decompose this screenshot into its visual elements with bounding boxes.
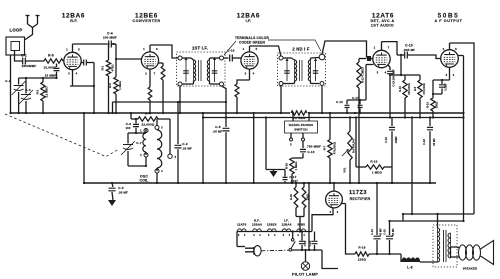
svg-text:3: 3 — [68, 72, 70, 76]
resistor R-12 4.7 MEG — [357, 59, 367, 185]
svg-text:C-13: C-13 — [307, 150, 314, 154]
svg-text:1 MEG: 1 MEG — [118, 81, 122, 90]
svg-text:C-10: C-10 — [405, 44, 413, 48]
wire screen drop x116 — [116, 44, 141, 59]
svg-text:R-13: R-13 — [426, 102, 430, 108]
capacitor C-14 100MMF — [387, 65, 396, 119]
svg-text:SWITCH: SWITCH — [294, 128, 308, 132]
svg-text:750 MMF: 750 MMF — [307, 145, 321, 149]
IF2 internal wires — [283, 58, 319, 84]
svg-text:R-1: R-1 — [101, 65, 105, 70]
AC cord dash-dot — [261, 249, 289, 252]
svg-text:150Ω: 150Ω — [306, 194, 310, 200]
capacitor C-16 — [336, 100, 349, 114]
wire V3 plate to IF2 — [250, 46, 281, 56]
svg-text:1: 1 — [66, 48, 68, 52]
wire plate run y44 — [73, 43, 108, 45]
svg-text:C-16: C-16 — [336, 100, 343, 104]
svg-text:6: 6 — [455, 47, 457, 51]
capacitor C-18 0.2MF — [432, 80, 448, 95]
svg-text:50 MF: 50 MF — [391, 228, 395, 236]
IF2 terminal bottom-right — [320, 82, 324, 86]
svg-text:470Ω: 470Ω — [111, 64, 115, 72]
on-off switch — [289, 230, 295, 251]
svg-text:100: 100 — [125, 126, 130, 130]
svg-text:2 ND I F: 2 ND I F — [292, 47, 309, 52]
svg-text:C-8: C-8 — [215, 125, 221, 129]
svg-text:0.2MF: 0.2MF — [444, 83, 448, 91]
wire V6 plate up — [333, 182, 335, 191]
IF1 internal wires — [182, 58, 220, 84]
wire V4 plate — [382, 42, 398, 55]
svg-text:C-16: C-16 — [227, 49, 234, 53]
IF2 shield box — [278, 53, 326, 86]
svg-text:12BA6: 12BA6 — [282, 223, 292, 227]
svg-text:12BE6: 12BE6 — [267, 223, 277, 227]
resistor R-2 2.2 MEG — [36, 78, 49, 114]
svg-text:15 MMF.: 15 MMF. — [45, 74, 57, 78]
wire R-4 to coil — [158, 118, 170, 120]
svg-text:R-18: R-18 — [289, 194, 293, 200]
svg-text:22,000Ω: 22,000Ω — [142, 123, 155, 127]
choke L-8 — [402, 258, 420, 270]
output transformer core — [444, 230, 447, 262]
svg-text:.05 MF: .05 MF — [182, 147, 192, 151]
pin numbers V4 — [374, 46, 390, 75]
heater V2f — [267, 223, 277, 237]
svg-text:RECTIFIER: RECTIFIER — [350, 197, 371, 201]
AVC bus y113 — [11, 112, 465, 114]
svg-text:470,000Ω: 470,000Ω — [422, 83, 426, 94]
svg-text:3: 3 — [377, 71, 379, 75]
osc coil terminal numbers — [140, 126, 163, 174]
svg-text:R-10: R-10 — [370, 160, 377, 164]
wire shunt join — [296, 217, 304, 233]
radio-phono switch box — [285, 121, 318, 133]
svg-text:C-7: C-7 — [136, 141, 142, 145]
svg-text:40 MF: 40 MF — [379, 228, 383, 236]
wire R-16 to filter — [369, 253, 401, 255]
svg-text:C-2: C-2 — [5, 79, 11, 83]
svg-text:1: 1 — [243, 47, 245, 51]
IF1 terminal top-right — [220, 56, 224, 60]
tube label 50B5 A.F. OUTPUT — [435, 13, 463, 24]
AC plug — [245, 246, 261, 256]
svg-text:CODED GREEN: CODED GREEN — [239, 41, 265, 45]
svg-text:C-19: C-19 — [370, 229, 374, 235]
wire B+ second run — [390, 213, 464, 221]
svg-text:2.2 MEG: 2.2 MEG — [45, 86, 49, 97]
pilot lamp — [301, 250, 309, 270]
wire V6 cathode to R-16 — [341, 204, 356, 255]
wire filament left end — [237, 232, 245, 247]
wire bus1-bus2 link x203 — [202, 112, 204, 184]
svg-text:2: 2 — [443, 47, 445, 51]
svg-text:R-8: R-8 — [413, 86, 417, 91]
capacitor C-15 grid — [227, 49, 234, 62]
capacitor C-19 40MF — [370, 182, 383, 254]
IF2 terminal top-left — [279, 56, 283, 60]
wire loop legs — [15, 51, 23, 62]
svg-text:4: 4 — [385, 71, 387, 75]
wire V1 side pin down — [93, 63, 95, 115]
wire C-4 right — [111, 43, 116, 45]
svg-text:330,000Ω: 330,000Ω — [407, 83, 411, 94]
svg-text:117Z3: 117Z3 — [349, 190, 367, 196]
heater V5f — [297, 223, 306, 237]
svg-text:.0047: .0047 — [290, 179, 298, 183]
svg-text:VOL: VOL — [344, 167, 347, 173]
oscillator coil primary — [143, 129, 148, 158]
output transformer secondary — [448, 233, 451, 258]
svg-text:1 MEG: 1 MEG — [294, 162, 298, 171]
resistor R-10 1 MEG — [355, 116, 393, 184]
IF1 primary trimmer — [183, 57, 189, 82]
resistor R-6 10,000 ohm — [44, 54, 63, 70]
svg-text:5: 5 — [78, 48, 80, 52]
IF1 terminal bottom-left — [178, 82, 182, 86]
heater V4f — [237, 223, 247, 237]
svg-text:R-6: R-6 — [48, 54, 54, 58]
capacitor C-17b — [352, 96, 362, 114]
resistor R-20 1 MEG — [285, 158, 304, 184]
antenna — [25, 16, 40, 41]
svg-text:DET, AVC &: DET, AVC & — [370, 19, 394, 23]
wire long drop x253.7 — [253, 112, 255, 184]
capacitor C-6 — [125, 119, 139, 133]
pin numbers V2 — [143, 47, 158, 76]
speaker secondary wires — [451, 247, 458, 257]
wire V2 plate to IF1 — [150, 45, 178, 58]
svg-text:6: 6 — [156, 47, 158, 51]
AVC junction — [354, 112, 356, 114]
svg-text:C-20: C-20 — [383, 229, 387, 235]
grid capacitor V4 — [367, 56, 373, 61]
label TERMINALS COLOR CODED GREEN — [224, 36, 321, 55]
wire V2 cathode — [148, 69, 152, 114]
tube V1 12BA6 — [64, 52, 81, 69]
svg-text:1: 1 — [374, 46, 376, 50]
tube label 12BE6 CONVERTER — [132, 13, 160, 24]
svg-text:C-18: C-18 — [422, 139, 426, 145]
IF2 secondary trimmer — [313, 58, 319, 81]
IF2 primary trimmer — [284, 58, 290, 81]
svg-text:150Ω: 150Ω — [435, 102, 439, 108]
wire IF1 bottom-left to bus — [179, 86, 181, 114]
capacitor C-9 — [175, 102, 193, 184]
svg-text:4: 4 — [76, 72, 78, 76]
capacitor at V1 side pin — [81, 60, 94, 66]
wire C-1 to R-6 — [25, 60, 44, 62]
svg-text:50B5: 50B5 — [297, 223, 305, 227]
resistor R-16 220 ohm — [355, 246, 369, 262]
oscillator coil secondary — [155, 126, 162, 174]
svg-text:C-13 250 MMF: C-13 250 MMF — [392, 69, 396, 87]
variable capacitor C-7 — [121, 132, 142, 158]
pin numbers V5 — [443, 47, 458, 77]
variable capacitor C-2 — [5, 78, 25, 114]
svg-text:A F OUTPUT: A F OUTPUT — [435, 19, 463, 23]
tube V4 12AT6 — [373, 50, 390, 67]
capacitor C-8 — [213, 112, 230, 184]
svg-text:1800MMF: 1800MMF — [22, 64, 37, 68]
resistor V2 cathode bias — [159, 63, 165, 114]
wire B+ top run — [403, 116, 474, 215]
wire diode load top — [389, 74, 420, 76]
wire pilot branch right — [322, 250, 338, 269]
svg-text:R-12 4.7MEG: R-12 4.7MEG — [361, 67, 365, 83]
svg-text:C-3: C-3 — [25, 88, 31, 92]
svg-text:C-22: C-22 — [308, 240, 312, 246]
wire IF2 bottom-right drop — [321, 86, 323, 114]
svg-text:.05 MF: .05 MF — [213, 130, 223, 134]
heater V1f — [252, 219, 262, 237]
svg-text:5: 5 — [256, 47, 258, 51]
svg-text:200 MMF: 200 MMF — [103, 36, 117, 40]
wire IF2 bottom-left drop — [280, 86, 282, 114]
speaker wires — [457, 248, 459, 258]
svg-text:R-20: R-20 — [285, 163, 289, 170]
svg-text:.05MF: .05MF — [394, 136, 398, 144]
svg-text:.005 MF: .005 MF — [403, 48, 415, 52]
svg-text:3: 3 — [446, 73, 448, 77]
svg-text:25 MF: 25 MF — [432, 138, 436, 146]
IF1 core — [199, 60, 202, 81]
capacitor C-13 750 MMF — [300, 141, 321, 158]
svg-text:2: 2 — [145, 72, 147, 76]
capacitor C-20 50MF — [383, 220, 396, 254]
tube V5 50B5 — [441, 50, 459, 68]
wire C-6 to coil top — [136, 129, 146, 133]
capacitor C-4 200 MMF — [103, 32, 117, 48]
wire V4 diode pins — [347, 65, 374, 102]
speaker voice coil — [459, 245, 481, 260]
wire IF1 to grid cap — [223, 57, 228, 59]
wire V5 cathode — [433, 67, 450, 94]
resistor R-13 150 — [426, 94, 439, 119]
resistor 2.2 MEG in AVC bus — [290, 109, 308, 121]
svg-text:C-5: C-5 — [118, 186, 124, 190]
svg-text:C-9: C-9 — [182, 142, 188, 146]
svg-text:C-6: C-6 — [126, 122, 132, 126]
output transformer primary — [438, 225, 440, 262]
svg-text:R-16: R-16 — [358, 246, 365, 250]
IF2 primary winding — [292, 59, 297, 82]
svg-text:12BA6: 12BA6 — [252, 223, 262, 227]
svg-text:R-15: R-15 — [398, 86, 402, 92]
svg-text:4: 4 — [253, 72, 255, 76]
capacitor C-1 — [21, 54, 36, 69]
bus2 y117.5 — [203, 117, 464, 119]
svg-text:7: 7 — [388, 46, 390, 50]
svg-text:R-7: R-7 — [323, 145, 327, 150]
wire primary top — [436, 213, 438, 225]
wire V5 screen — [458, 56, 465, 223]
svg-text:7: 7 — [154, 72, 156, 76]
resistor R-3 1 MEG — [108, 58, 122, 114]
resistor R-11 330,000 — [398, 75, 411, 119]
capacitor C-17 .0047 — [283, 170, 299, 184]
svg-text:1ST AUDIO: 1ST AUDIO — [371, 24, 394, 28]
wire choke to transformer — [420, 261, 438, 263]
svg-text:R-2: R-2 — [36, 89, 40, 94]
volume control R-9 500,000 — [342, 116, 356, 184]
IF2 terminal bottom-left — [279, 82, 283, 86]
capacitor C-22 — [308, 232, 318, 251]
resistor R-8 470,000 — [413, 75, 426, 119]
tube V6 117Z3 — [326, 191, 343, 208]
pin numbers V1 — [66, 48, 80, 76]
wire C-10 junction down — [400, 54, 402, 76]
svg-text:R.F.: R.F. — [70, 19, 78, 23]
resistor R-4 22,000 ohm — [138, 112, 158, 127]
svg-text:SPEAKER: SPEAKER — [463, 267, 477, 271]
IF1 primary winding — [191, 58, 196, 81]
wire coil bottom to bus — [145, 157, 158, 184]
capacitor C-18 25MF — [422, 116, 436, 184]
resistor R-1 vertical — [101, 43, 115, 114]
svg-text:4: 4 — [453, 73, 455, 77]
svg-text:1: 1 — [143, 47, 145, 51]
IF2 secondary winding — [308, 60, 310, 81]
svg-text:1ST I.F.: 1ST I.F. — [192, 46, 208, 51]
wire AC run y250 — [292, 249, 322, 251]
wire x84 bus to chassis — [83, 112, 85, 184]
label OSC COIL — [140, 175, 149, 183]
svg-text:R-9 500,000: R-9 500,000 — [352, 138, 356, 153]
gang junction line y78 — [19, 77, 58, 79]
wire V6 heater return — [312, 208, 333, 232]
wire IF1 bottom-right drop — [222, 86, 227, 113]
IF1 secondary trimmer — [212, 57, 218, 82]
chassis ground — [108, 200, 116, 206]
wire C-7 to ground run — [128, 158, 146, 166]
phono ground feed — [265, 116, 285, 169]
resistor R-18 shunt — [289, 183, 298, 217]
capacitor C-16b .05MF — [384, 118, 398, 168]
switch poles — [290, 133, 305, 147]
output transformer box — [433, 225, 457, 267]
capacitor C-10 .005 MF — [397, 44, 441, 59]
heater V3f — [282, 219, 292, 237]
svg-text:220Ω: 220Ω — [358, 258, 367, 262]
resistor R-19 shunt — [302, 182, 309, 217]
tube label 12AT6 DET AVC 1ST AUDIO — [370, 13, 394, 28]
svg-text:COIL: COIL — [140, 179, 149, 183]
svg-text:C-16: C-16 — [384, 137, 388, 143]
wire osc feed — [130, 112, 138, 120]
svg-text:12AT6: 12AT6 — [237, 223, 247, 227]
IF1 secondary winding — [207, 60, 209, 81]
svg-text:1 MEG: 1 MEG — [372, 171, 383, 175]
wire coil top to R-4 — [156, 119, 158, 126]
svg-text:L-8: L-8 — [407, 266, 412, 270]
pin numbers V6 — [330, 210, 339, 214]
capacitor 15 MMF — [45, 64, 60, 79]
wire V1 plate up — [72, 44, 74, 52]
resistor R-7 470,000 — [323, 112, 337, 184]
wire grid cap to V3 — [232, 57, 241, 59]
wire osc pickup — [168, 119, 177, 159]
tube label 12BA6 R.F. — [62, 13, 85, 24]
wire to choke — [400, 254, 402, 262]
tube V2 12BE6 — [141, 52, 158, 69]
svg-text:3: 3 — [245, 72, 247, 76]
pin numbers V3 — [243, 47, 258, 76]
IF2 core — [300, 60, 303, 81]
tube label 12BA6 I.F. — [237, 13, 260, 24]
filament line — [237, 231, 312, 233]
phono ground arrow — [270, 170, 278, 178]
label 117Z3 RECTIFIER — [349, 190, 371, 201]
svg-text:CONVERTER: CONVERTER — [132, 19, 160, 23]
svg-text:R-3: R-3 — [108, 83, 112, 88]
svg-text:470,000Ω: 470,000Ω — [333, 141, 337, 154]
wire loop bottom to bus — [9, 55, 11, 114]
dashed gang line — [5, 114, 119, 157]
IF1 terminal top-left — [178, 56, 182, 60]
wire IF2 to grid — [322, 41, 367, 58]
svg-text:C-1: C-1 — [21, 54, 27, 58]
svg-text:LOOP: LOOP — [10, 28, 23, 33]
loop antenna L1 — [6, 37, 25, 55]
IF1 shield box — [177, 52, 226, 86]
svg-text:.05 MF: .05 MF — [118, 191, 128, 195]
capacitor C-21 — [299, 230, 307, 250]
svg-text:RADIO-PHONO: RADIO-PHONO — [289, 123, 314, 127]
capacitor C-5 .05MF — [109, 182, 129, 200]
speaker cone — [481, 241, 494, 265]
IF2 terminal top-right — [319, 54, 325, 60]
upper bus y102 — [111, 101, 227, 114]
wire V1 cathode — [72, 70, 74, 86]
svg-text:TERMINALS COLOR: TERMINALS COLOR — [235, 36, 269, 40]
svg-text:I.F.: I.F. — [246, 19, 252, 23]
wire bus drop to pilot — [308, 182, 310, 250]
IF1 terminal bottom-right — [220, 82, 224, 86]
wire V5 plate to output — [450, 43, 475, 214]
svg-text:C-21: C-21 — [303, 240, 307, 246]
cathode line y86 — [70, 85, 94, 87]
svg-text:PILOT LAMP: PILOT LAMP — [292, 272, 318, 277]
variable capacitor C-3 — [19, 78, 33, 114]
wire V3 cathode resistor — [235, 69, 250, 114]
switch box feeds — [292, 112, 310, 121]
tube V3 12BA6 — [241, 52, 258, 69]
chassis bus y183 — [84, 182, 436, 184]
